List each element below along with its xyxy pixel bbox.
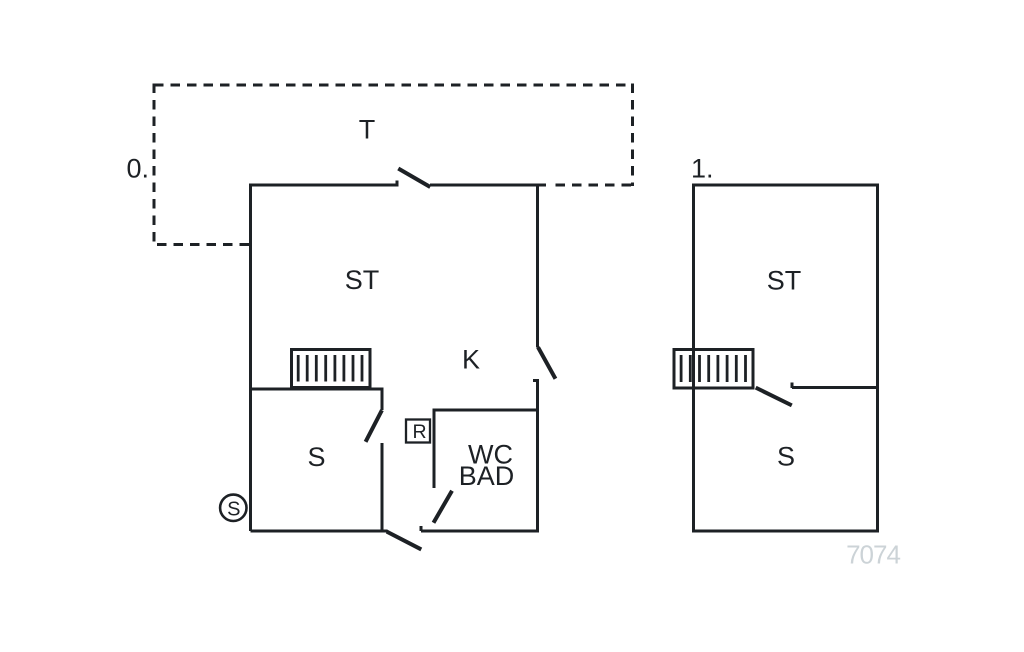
svg-text:R: R [412, 421, 426, 443]
door stop tick bottom door [420, 526, 423, 531]
WC top wall [433, 409, 538, 412]
ground floor top wall left segment [249, 184, 398, 187]
stairs ground floor box [292, 350, 371, 388]
svg-text:S: S [307, 442, 325, 472]
S room right wall lower [381, 443, 384, 531]
ground floor bottom wall left segment [251, 530, 388, 533]
door stop tick first floor door [791, 383, 794, 389]
stairs first floor box [674, 350, 753, 389]
stairs ground floor treads [298, 355, 362, 382]
terrace dashed outline left [153, 84, 156, 247]
first floor interior wall [792, 386, 879, 389]
svg-text:ST: ST [767, 266, 802, 296]
svg-text:K: K [462, 345, 480, 375]
svg-text:T: T [359, 115, 376, 145]
door leaf first floor [758, 389, 791, 405]
circled S symbol [220, 495, 246, 521]
svg-text:S: S [227, 499, 240, 521]
terrace dashed outline top [154, 84, 633, 87]
first floor top wall [692, 184, 879, 187]
terrace dashed outline bottom-left [155, 243, 249, 246]
S room corner wall down [381, 388, 384, 411]
ground floor right wall lower [536, 381, 539, 533]
first floor bottom wall [692, 530, 879, 533]
stairs first floor treads [681, 355, 745, 382]
door leaf bottom door [389, 533, 420, 549]
ground floor top wall right segment [430, 184, 546, 187]
svg-text:0.: 0. [126, 154, 149, 184]
svg-text:S: S [777, 442, 795, 472]
first floor left wall [692, 184, 695, 532]
first floor right wall [876, 185, 879, 533]
ground floor bottom wall right segment [421, 530, 539, 533]
svg-text:BAD: BAD [459, 461, 515, 491]
door leaf K door [539, 349, 555, 377]
S room top wall [251, 388, 381, 391]
terrace dashed outline bottom-right [549, 184, 631, 187]
door stop tick top door [396, 181, 399, 187]
door leaf S door [367, 412, 382, 440]
ground floor left wall [249, 184, 252, 532]
svg-text:ST: ST [345, 265, 380, 295]
door leaf top (T door) [400, 170, 429, 187]
svg-text:1.: 1. [691, 154, 714, 184]
svg-text:7074: 7074 [846, 540, 900, 570]
WC left wall [433, 409, 436, 489]
terrace dashed outline right [631, 84, 634, 187]
R box [406, 420, 430, 443]
door leaf WC door [435, 493, 452, 522]
ground floor right wall upper [536, 185, 539, 348]
door stop tick K door [533, 379, 539, 382]
